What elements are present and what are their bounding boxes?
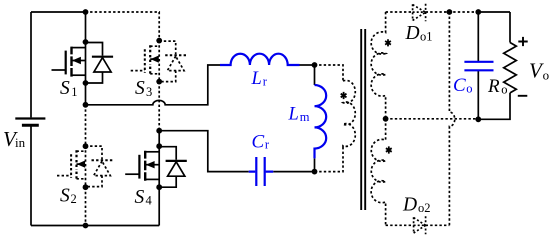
transistor S4 bbox=[125, 146, 187, 187]
svg-text:C: C bbox=[453, 75, 466, 96]
svg-text:o2: o2 bbox=[418, 201, 431, 215]
svg-text:S: S bbox=[135, 78, 145, 99]
wire top node to primary top bbox=[315, 65, 344, 81]
node S2 source bbox=[83, 184, 89, 190]
node S4 source bbox=[156, 184, 162, 190]
polarity mark secondary top bbox=[385, 39, 391, 46]
node A bbox=[83, 102, 89, 108]
inductor Lm bbox=[315, 85, 327, 158]
diode Do2 (dashed) bbox=[414, 216, 426, 234]
svg-text:r: r bbox=[263, 75, 268, 89]
wire center tap to output bottom bbox=[386, 118, 479, 120]
wire Ro top lead bbox=[509, 12, 511, 43]
svg-text:3: 3 bbox=[146, 85, 152, 99]
transistor S3 (dashed) bbox=[131, 41, 187, 82]
transformer core bbox=[361, 29, 365, 210]
polarity mark secondary bottom bbox=[386, 146, 392, 153]
svg-text:m: m bbox=[300, 110, 310, 124]
wire top rail left bbox=[31, 11, 86, 13]
wire node B to S4 drain bbox=[158, 131, 160, 147]
wire node A to S2 drain (dashed) bbox=[85, 105, 87, 146]
node S3 source bbox=[156, 79, 162, 85]
node B bbox=[156, 128, 162, 134]
svg-text:2: 2 bbox=[71, 192, 77, 206]
svg-text:o: o bbox=[501, 83, 507, 97]
svg-text:C: C bbox=[252, 131, 265, 152]
diode Do1 (dashed) bbox=[413, 4, 426, 22]
resistor Ro zigzag bbox=[504, 43, 517, 93]
svg-text:S: S bbox=[60, 186, 70, 207]
wire node B to Cr corner bbox=[159, 131, 249, 172]
wire S1 drain bbox=[85, 12, 87, 42]
node Do1 cathode bbox=[447, 9, 453, 15]
wire top node to Lm bbox=[314, 65, 316, 85]
transistor S2 (dashed) bbox=[57, 146, 113, 187]
label plus bbox=[518, 37, 527, 46]
transistor S1 bbox=[52, 42, 114, 83]
wire S4 source to bottom rail bbox=[158, 186, 160, 225]
wire top rail dashed to S3 bbox=[86, 12, 160, 41]
svg-text:L: L bbox=[288, 105, 299, 125]
node tank top bbox=[312, 62, 318, 68]
svg-text:D: D bbox=[405, 23, 420, 44]
wire Do1 node down to Do2 cathode, hop over center tap bbox=[449, 12, 454, 225]
wire Do1 cathode to top rail dot bbox=[426, 11, 479, 13]
transformer primary winding (dashed) bbox=[343, 80, 355, 147]
wire Lm bottom to bottom node bbox=[314, 158, 316, 171]
svg-text:L: L bbox=[251, 69, 262, 89]
wire primary bottom to bottom node bbox=[315, 147, 344, 172]
transformer secondary winding top (dashed) bbox=[371, 12, 385, 119]
svg-text:R: R bbox=[487, 76, 500, 97]
wire output top rail bbox=[478, 11, 510, 13]
svg-text:o: o bbox=[466, 82, 472, 96]
inductor Lr bbox=[220, 54, 300, 65]
node S1 source bbox=[83, 80, 89, 86]
wire Ro bottom lead bbox=[478, 93, 510, 119]
svg-text:1: 1 bbox=[71, 85, 77, 99]
wire S1 source to node A bbox=[85, 83, 87, 105]
node output top bbox=[475, 9, 481, 15]
wire Do2 cathode right bbox=[426, 224, 450, 226]
node S2 drain bbox=[83, 143, 89, 149]
capacitor Cr bbox=[249, 157, 274, 186]
label minus bbox=[518, 95, 528, 97]
wire Cr right lead to bottom node bbox=[273, 171, 314, 173]
node center tap bbox=[383, 116, 389, 122]
wire secondary top to Do1 anode bbox=[386, 11, 413, 13]
wire left vertical to battery top bbox=[30, 12, 32, 117]
node top rail left bbox=[83, 9, 89, 15]
capacitor Co bbox=[464, 62, 493, 71]
node tank bottom bbox=[312, 169, 318, 175]
wire secondary bottom to Do2 anode bbox=[386, 224, 414, 226]
polarity mark primary bbox=[341, 92, 347, 99]
wire Co top lead bbox=[477, 12, 479, 61]
wire Lr right black segment bbox=[300, 64, 315, 66]
svg-text:o1: o1 bbox=[420, 30, 433, 44]
svg-text:D: D bbox=[402, 195, 417, 216]
wire bottom rail bbox=[31, 225, 159, 227]
node bottom rail bbox=[83, 223, 89, 229]
wire S3 source to node B (dashed) bbox=[158, 82, 160, 131]
svg-text:S: S bbox=[60, 78, 70, 99]
svg-text:in: in bbox=[15, 135, 26, 150]
node output bottom bbox=[475, 116, 481, 122]
svg-text:r: r bbox=[265, 138, 270, 152]
node S1 drain bbox=[83, 39, 89, 45]
node S3 drain bbox=[156, 38, 162, 44]
node S4 drain bbox=[156, 143, 162, 149]
svg-text:4: 4 bbox=[146, 194, 153, 208]
wire S2 source to bottom rail (dashed) bbox=[85, 187, 87, 225]
battery Vin bbox=[15, 119, 45, 126]
svg-text:o: o bbox=[543, 68, 550, 83]
transformer secondary winding bottom (dashed) bbox=[371, 119, 385, 226]
svg-text:S: S bbox=[135, 187, 145, 208]
wire Co bottom lead bbox=[477, 71, 479, 119]
wire battery bottom to bottom rail bbox=[30, 126, 32, 225]
wire node A to Lr corner with hop bbox=[86, 65, 221, 105]
